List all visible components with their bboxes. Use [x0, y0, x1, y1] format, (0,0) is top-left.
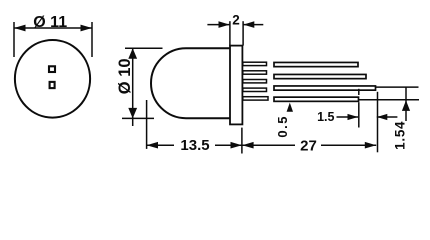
svg-text:27: 27 — [300, 137, 317, 154]
svg-text:0.5: 0.5 — [275, 115, 290, 138]
svg-text:13.5: 13.5 — [180, 137, 209, 154]
svg-text:1.5: 1.5 — [317, 110, 334, 124]
svg-text:2: 2 — [232, 13, 240, 28]
svg-text:Ø 11: Ø 11 — [33, 14, 67, 31]
svg-text:Ø 10: Ø 10 — [116, 58, 134, 94]
svg-text:1.54: 1.54 — [393, 121, 408, 150]
